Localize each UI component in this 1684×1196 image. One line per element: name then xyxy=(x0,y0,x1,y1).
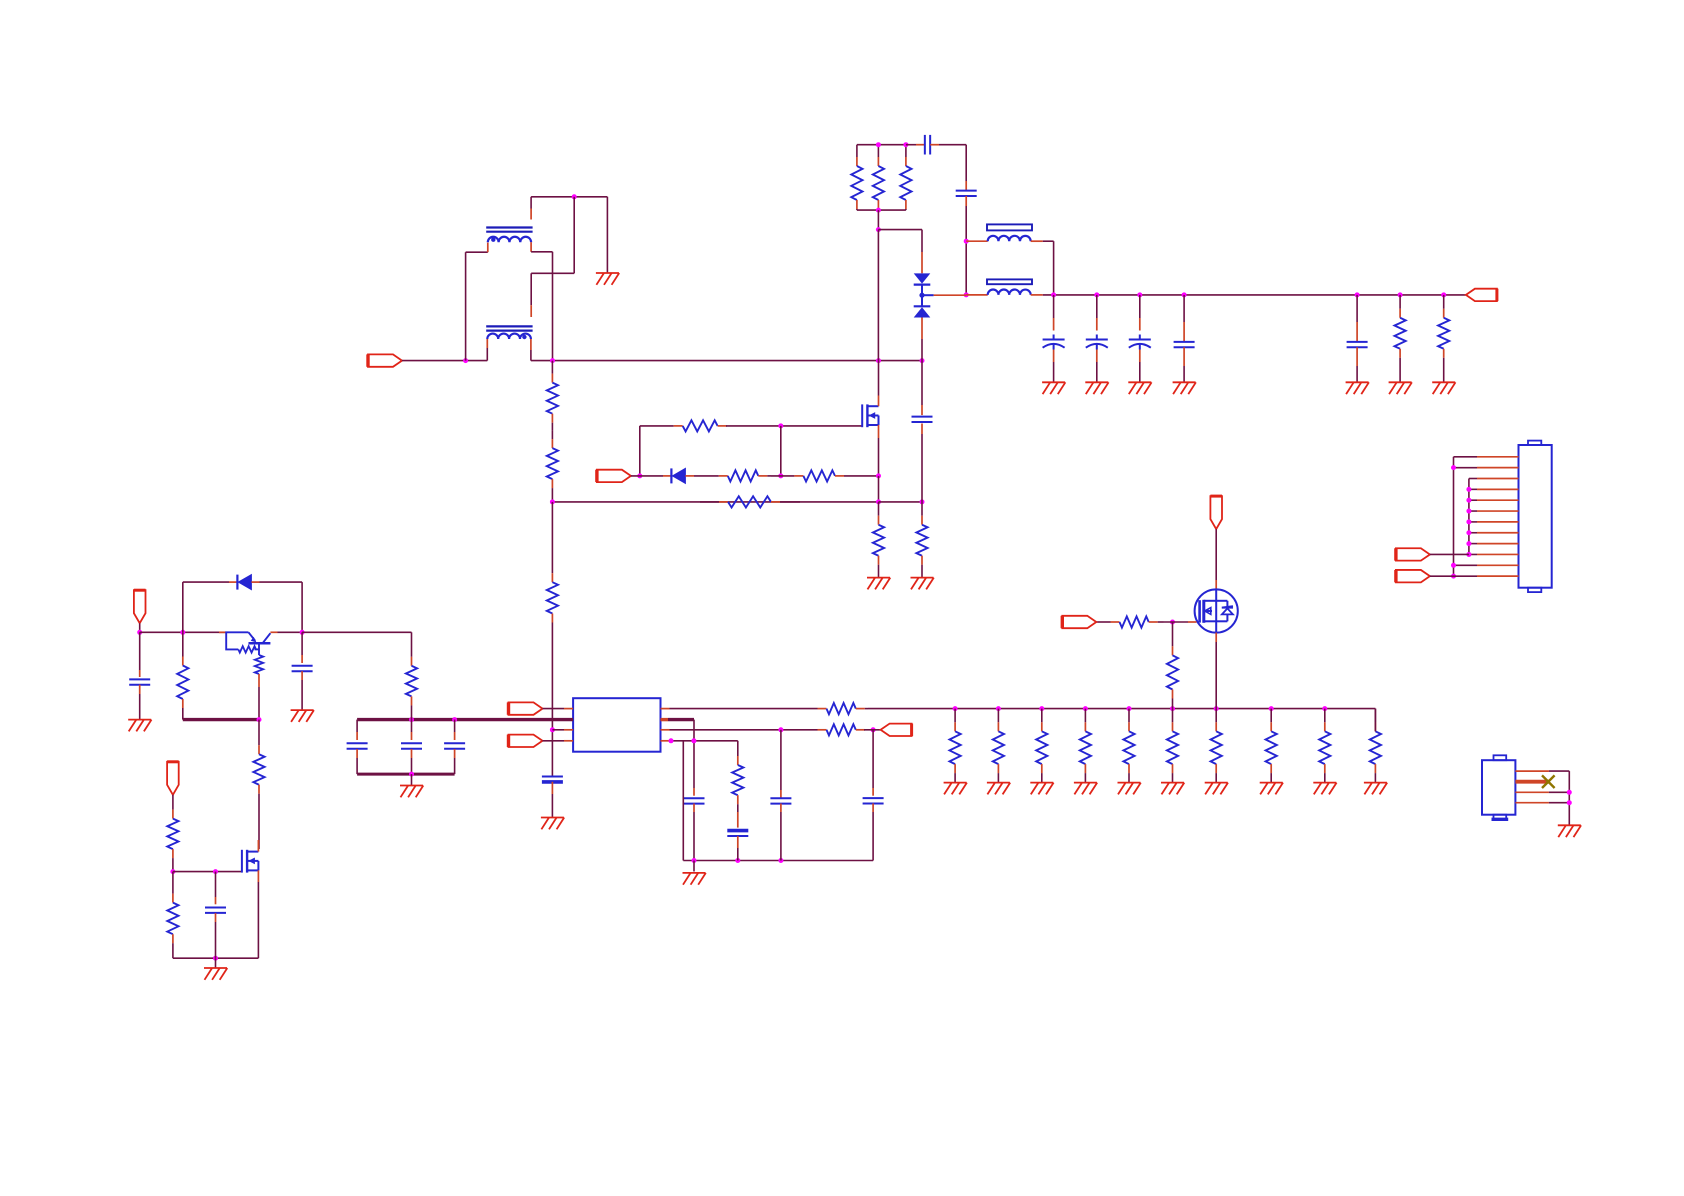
wire connector J1 pin 8 xyxy=(1477,532,1519,534)
resistor Rb1271 xyxy=(1270,709,1272,723)
wire source down xyxy=(1215,633,1217,642)
wire outer vertical xyxy=(1453,457,1455,576)
ground xyxy=(911,578,934,590)
node junction xyxy=(1466,541,1471,546)
wire xyxy=(1469,499,1477,501)
node junction xyxy=(463,358,468,363)
wire xyxy=(693,720,695,788)
ground xyxy=(541,818,564,830)
capacitor C4 xyxy=(542,776,563,778)
wire xyxy=(356,720,358,732)
wire xyxy=(278,631,303,633)
ground xyxy=(1432,382,1455,394)
wire pin top choke right upper stub xyxy=(530,209,532,220)
wire xyxy=(573,197,575,273)
wire xyxy=(780,426,782,476)
resistor R17 xyxy=(737,741,739,756)
capacitor C14 xyxy=(770,797,791,799)
wire connector J1 pin 4 xyxy=(1477,488,1519,490)
ground xyxy=(1313,783,1336,795)
node junction xyxy=(1466,519,1471,524)
wire xyxy=(411,720,413,732)
wire xyxy=(877,210,879,230)
ground xyxy=(683,873,706,885)
node junction xyxy=(1039,706,1044,711)
ground xyxy=(1074,783,1097,795)
node junction xyxy=(1355,292,1360,297)
ground xyxy=(291,710,314,722)
node junction xyxy=(1127,706,1132,711)
capacitor C7 xyxy=(863,797,884,799)
resistor R19 xyxy=(1172,622,1174,646)
ground xyxy=(867,578,890,590)
TVS diode D1 top xyxy=(914,273,931,283)
node junction xyxy=(903,142,908,147)
wire xyxy=(173,957,259,959)
node junction xyxy=(550,499,555,504)
node junction xyxy=(1567,790,1572,795)
wire xyxy=(1469,521,1477,523)
wire xyxy=(1430,553,1469,555)
wire pin 1 xyxy=(543,708,565,710)
node junction xyxy=(1214,706,1219,711)
node junction xyxy=(213,956,218,961)
port P4 xyxy=(509,702,543,714)
resistor R20 xyxy=(182,632,184,656)
node junction xyxy=(572,194,577,199)
node junction xyxy=(876,208,881,213)
capacitor C3 xyxy=(912,416,933,418)
resistor Rb1041 xyxy=(1041,709,1043,723)
ground xyxy=(1346,382,1369,394)
node junction xyxy=(180,630,185,635)
ground xyxy=(1260,783,1283,795)
wire main rail xyxy=(531,360,922,362)
node junction xyxy=(1441,292,1446,297)
wire xyxy=(531,272,574,274)
ground xyxy=(944,783,967,795)
resistor Rb1085 xyxy=(1084,709,1086,723)
wire bottom rail xyxy=(683,860,873,862)
wire xyxy=(215,872,217,897)
resistor R14 xyxy=(551,502,553,573)
ferrite bead FB1 xyxy=(987,224,1032,230)
node junction xyxy=(1466,487,1471,492)
node junction xyxy=(550,727,555,732)
node junction xyxy=(778,423,783,428)
node junction xyxy=(669,738,674,743)
wire connector J1 pin 9 xyxy=(1477,543,1519,545)
no-connect X xyxy=(1542,775,1555,788)
resistor Rb1129 xyxy=(1128,709,1130,723)
resistor R8 xyxy=(771,475,794,477)
node junction xyxy=(1451,465,1456,470)
resistor Rb955 xyxy=(954,709,956,723)
wire xyxy=(780,730,782,790)
node junction xyxy=(876,473,881,478)
port P6 xyxy=(881,724,912,736)
MOSFET Q4 xyxy=(242,850,259,873)
node junction xyxy=(1466,509,1471,514)
wire xyxy=(1469,543,1477,545)
node junction rail end xyxy=(920,358,925,363)
node junction xyxy=(1398,292,1403,297)
node junction xyxy=(920,499,925,504)
capacitor C12 xyxy=(444,742,465,744)
wire xyxy=(1430,575,1454,577)
wire xyxy=(878,229,922,231)
wire xyxy=(726,425,862,427)
wire xyxy=(1183,295,1185,322)
node junction xyxy=(637,473,642,478)
ground xyxy=(1042,382,1065,394)
port P8 xyxy=(1062,616,1096,628)
port P1 AC input xyxy=(368,354,402,366)
port P9 xyxy=(134,590,146,623)
wire feedback bus xyxy=(868,708,1375,710)
ground xyxy=(1558,825,1581,837)
resistor R24 xyxy=(258,744,260,746)
wire xyxy=(1139,362,1141,382)
node junction xyxy=(170,869,175,874)
common-mode choke L1 winding B xyxy=(486,325,532,327)
wire connector J1 pin 3 xyxy=(1477,478,1519,480)
wire xyxy=(1139,295,1141,318)
wire mid row xyxy=(552,501,878,503)
wire xyxy=(215,958,217,967)
wire drain chain xyxy=(258,720,260,745)
wire xyxy=(552,252,554,361)
wire source xyxy=(878,425,880,438)
ferrite bead FB2 xyxy=(987,279,1032,284)
wire to ground xyxy=(606,197,608,273)
ground xyxy=(1128,382,1151,394)
wire TVS middle tap xyxy=(921,285,923,307)
capacitor C6 xyxy=(737,812,739,828)
ground xyxy=(400,786,423,798)
common-mode choke L1 winding A xyxy=(486,226,532,228)
node junction xyxy=(1170,620,1175,625)
resistor R11 xyxy=(921,502,923,516)
MOSFET Q1 xyxy=(862,404,878,427)
resistor R4 xyxy=(1399,295,1401,309)
resistor R13 xyxy=(551,431,553,439)
node junction xyxy=(778,473,783,478)
wire pin3 row xyxy=(661,729,670,731)
node junction xyxy=(692,858,697,863)
resistor R1 snubber xyxy=(856,145,858,157)
node junction xyxy=(876,142,881,147)
port P3 gate drive xyxy=(597,470,631,482)
wire xyxy=(879,501,923,503)
wire diode row xyxy=(183,581,229,583)
node junction xyxy=(1567,800,1572,805)
node junction xyxy=(300,630,305,635)
ground xyxy=(1085,382,1108,394)
ground xyxy=(1118,783,1141,795)
node junction xyxy=(1451,563,1456,568)
wire xyxy=(1356,295,1358,322)
wire xyxy=(531,251,552,253)
wire J2 pin4 xyxy=(1515,802,1549,804)
wire gate row xyxy=(640,425,674,427)
resistor R21 xyxy=(411,632,413,657)
connector J1 body xyxy=(1519,445,1552,588)
wire xyxy=(965,145,967,181)
port P12 xyxy=(1396,570,1430,582)
wire connector J1 pin 11 xyxy=(1477,564,1519,566)
wire xyxy=(258,687,260,720)
wire pin4 row xyxy=(661,740,670,742)
wire xyxy=(1096,362,1098,382)
node junction xyxy=(1466,552,1471,557)
wire thick vdd rail xyxy=(357,718,573,721)
wire xyxy=(639,426,641,476)
wire xyxy=(1053,362,1055,382)
capacitor C16 xyxy=(1347,341,1368,343)
wire connector J1 pin 7 xyxy=(1477,521,1519,523)
resistor R15 xyxy=(817,708,819,710)
resistor Rb998 xyxy=(997,709,999,723)
wire xyxy=(877,230,879,361)
ground xyxy=(204,968,227,980)
diode D4 xyxy=(236,575,238,590)
node junction xyxy=(735,858,740,863)
wire snubber top rail xyxy=(857,144,906,146)
wire connector J1 pin 6 xyxy=(1477,510,1519,512)
wire xyxy=(302,631,411,633)
ground xyxy=(1173,382,1196,394)
capacitor C15 xyxy=(1174,341,1195,343)
wire gate row xyxy=(173,871,242,873)
wire xyxy=(1043,240,1054,242)
wire xyxy=(402,360,487,362)
port P10 xyxy=(167,762,179,795)
node junction xyxy=(1094,292,1099,297)
wire xyxy=(411,774,413,785)
wire drain xyxy=(878,396,880,407)
wire xyxy=(465,252,467,360)
ground xyxy=(128,720,151,732)
ground xyxy=(1030,783,1053,795)
wire snubber bottom rail xyxy=(857,209,906,211)
wire left row xyxy=(140,631,227,633)
node junction xyxy=(409,717,414,722)
transistor Q3 digital xyxy=(219,631,226,633)
node junction xyxy=(876,358,881,363)
wire xyxy=(878,476,880,502)
wire inner vertical xyxy=(1468,479,1470,555)
node junction xyxy=(452,717,457,722)
capacitor C8 xyxy=(129,678,150,680)
wire xyxy=(872,730,874,788)
wire xyxy=(1454,456,1478,458)
wire cap under IC xyxy=(551,770,553,777)
node junction xyxy=(691,738,696,743)
node junction xyxy=(1451,574,1456,579)
wire thick rail left xyxy=(183,718,259,721)
node junction xyxy=(778,858,783,863)
node junction xyxy=(1083,706,1088,711)
capacitor C11 xyxy=(401,742,422,744)
ground xyxy=(987,783,1010,795)
wire pin 3 left xyxy=(564,729,573,731)
node junction xyxy=(1051,292,1056,297)
wire xyxy=(1096,295,1098,318)
port P7 xyxy=(1210,496,1222,529)
wire xyxy=(551,648,553,770)
node junction xyxy=(876,227,881,232)
node junction xyxy=(996,706,1001,711)
wire pin top choke left xyxy=(487,243,489,253)
wire xyxy=(1469,510,1477,512)
wire xyxy=(966,240,988,242)
ground xyxy=(1389,382,1412,394)
polarized capacitor xyxy=(1129,339,1151,341)
wire bus right end xyxy=(1374,709,1376,732)
wire xyxy=(1469,532,1477,534)
node junction xyxy=(964,292,969,297)
node junction xyxy=(778,727,783,732)
capacitor C snubber series xyxy=(924,135,926,155)
wire xyxy=(921,230,923,252)
wire xyxy=(864,729,881,731)
resistor Rb1324 xyxy=(1324,709,1326,723)
wire xyxy=(1469,478,1477,480)
TVS diode D2 bottom xyxy=(914,305,931,307)
polarized capacitor xyxy=(1086,339,1108,341)
wire pin top choke right lower xyxy=(530,242,532,252)
capacitor C10 xyxy=(347,742,368,744)
wire xyxy=(1215,529,1217,580)
resistor R7 xyxy=(694,475,719,477)
wire pin bottom choke left xyxy=(486,339,488,348)
resistor R18 xyxy=(1110,621,1112,623)
wire xyxy=(530,273,532,305)
wire J2 pin2 no-connect xyxy=(1515,780,1549,784)
node junction xyxy=(1322,706,1327,711)
wire connector J1 pin 10 xyxy=(1477,553,1519,555)
MOSFET Q2 power xyxy=(1195,589,1238,632)
capacitor C13 xyxy=(205,907,226,909)
wire xyxy=(301,632,303,655)
resistor R2 snubber xyxy=(877,145,879,157)
wire pin bottom choke right xyxy=(530,339,532,350)
wire xyxy=(1454,575,1478,577)
node junction xyxy=(953,706,958,711)
capacitor C5 xyxy=(684,797,705,799)
wire connector J1 pin 1 xyxy=(1477,456,1519,458)
wire gate row xyxy=(1096,621,1110,623)
wire xyxy=(1469,488,1477,490)
inductor L3 xyxy=(988,290,1031,295)
wire xyxy=(1568,771,1570,825)
node junction xyxy=(257,717,262,722)
node junction xyxy=(550,358,555,363)
ground xyxy=(1205,783,1228,795)
wire xyxy=(257,840,259,852)
wire xyxy=(139,632,141,670)
wire series cap leads xyxy=(906,144,916,146)
connector J2 body xyxy=(1482,760,1515,815)
node junction xyxy=(1137,292,1142,297)
resistor R5 xyxy=(1443,295,1445,309)
IC U1 controller xyxy=(573,698,660,752)
wire connector J1 pin 5 xyxy=(1477,499,1519,501)
wire connector J1 pin 2 xyxy=(1477,467,1519,469)
resistor R12 xyxy=(551,361,553,374)
wire xyxy=(921,361,923,405)
ground xyxy=(596,273,619,285)
node junction xyxy=(1170,706,1175,711)
node junction xyxy=(876,499,881,504)
ground xyxy=(1161,783,1184,795)
inductor L2 xyxy=(988,236,1031,241)
wire top net xyxy=(531,196,607,198)
wire pin feedback row xyxy=(661,708,670,710)
wire xyxy=(466,251,488,253)
node junction xyxy=(871,727,876,732)
resistor Rb1172 xyxy=(1172,709,1174,723)
port P2 output xyxy=(1466,289,1497,301)
ground xyxy=(1364,783,1387,795)
wire xyxy=(1164,621,1189,623)
node junction xyxy=(409,772,414,777)
wire pin 4 left xyxy=(543,740,565,742)
resistor R10 xyxy=(878,502,880,516)
wire J2 pin1 xyxy=(1515,770,1549,772)
node junction xyxy=(1466,530,1471,535)
port P11 xyxy=(1396,548,1430,560)
diode D3 xyxy=(670,468,672,483)
wire xyxy=(966,294,988,296)
resistor R16 xyxy=(817,729,819,731)
wire xyxy=(301,582,303,632)
polarized capacitor xyxy=(1043,339,1065,341)
wire xyxy=(1469,553,1477,555)
wire xyxy=(1053,295,1055,318)
resistor R23 xyxy=(172,872,174,894)
node junction xyxy=(1182,292,1187,297)
wire xyxy=(454,720,456,732)
resistor R3 snubber xyxy=(905,145,907,157)
wire xyxy=(693,861,695,872)
wire xyxy=(139,623,141,632)
wire J2 pin3 xyxy=(1515,791,1549,793)
node junction xyxy=(1466,498,1471,503)
node junction xyxy=(1269,706,1274,711)
node junction xyxy=(137,630,142,635)
wire xyxy=(182,582,184,632)
resistor R22 xyxy=(172,795,174,810)
wire cap bank bottom rail xyxy=(357,773,455,776)
wire source xyxy=(257,870,259,882)
resistor Rb1375 xyxy=(1374,709,1376,723)
wire xyxy=(682,741,684,861)
wire connector J1 pin 12 xyxy=(1477,575,1519,577)
capacitor C9 xyxy=(292,665,313,667)
resistor Rb1216 xyxy=(1215,709,1217,723)
wire xyxy=(921,318,923,340)
resistor R6 gate xyxy=(673,425,675,427)
node junction xyxy=(213,869,218,874)
wire xyxy=(631,475,663,477)
resistor R9 xyxy=(700,501,719,503)
port P5 xyxy=(509,735,543,747)
wire output rail xyxy=(1043,294,1466,296)
wire pin2 thick xyxy=(661,718,669,721)
capacitor C2 xyxy=(956,190,977,192)
